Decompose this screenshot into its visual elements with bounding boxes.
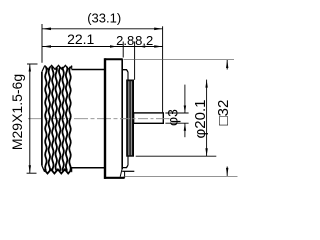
barrel [72, 70, 105, 168]
thread left face [41, 72, 43, 166]
svg-text:φ3: φ3 [165, 109, 181, 126]
thread root bottom zigzag [44, 169, 72, 173]
dim (33.1) line [42, 28, 163, 31]
thread end step top [71, 66, 73, 70]
dim M29X1.5-6g [27, 64, 38, 173]
thread chamfer bottom [42, 166, 45, 172]
svg-text:φ20.1: φ20.1 [192, 100, 209, 139]
svg-text:□32: □32 [215, 100, 232, 126]
thread M29 body [42, 65, 72, 173]
dim square-32 [124, 59, 238, 176]
extension lines top dims [42, 24, 163, 112]
dim phi3 [165, 85, 188, 138]
thread helix strokes [45, 67, 46, 171]
flange (square 32) [104, 58, 124, 179]
svg-text:M29X1.5-6g: M29X1.5-6g [9, 74, 25, 150]
thread chamfer top [42, 66, 45, 72]
svg-text:2.8: 2.8 [116, 33, 134, 48]
svg-text:8.2: 8.2 [135, 33, 153, 48]
centerline over pin [120, 118, 170, 120]
pin (phi 3) [134, 113, 164, 123]
thread crest top [45, 65, 72, 69]
svg-text:(33.1): (33.1) [87, 11, 121, 26]
thread end step bottom [71, 168, 73, 172]
dim chain 22.1 / 2.8 / 8.2 line [42, 45, 163, 48]
dim phi20.1 [136, 80, 217, 157]
centerline [28, 118, 170, 120]
boss behind flange [122, 70, 134, 178]
gasket ring (phi 20.1) [127, 80, 134, 156]
svg-text:22.1: 22.1 [67, 31, 94, 47]
